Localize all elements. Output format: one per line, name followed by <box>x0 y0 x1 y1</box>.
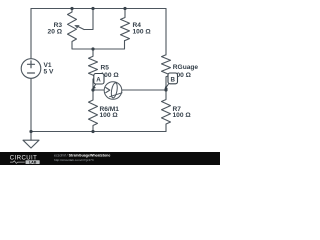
wire right rail upper <box>165 9 167 55</box>
meter M1 <box>104 82 122 100</box>
ground <box>23 140 39 148</box>
footer logo LAB box <box>26 160 40 164</box>
junction dot node A <box>91 88 94 91</box>
footer logo zigzag <box>10 161 25 164</box>
resistor R6 <box>89 90 98 132</box>
junction dot top rail / R4 <box>123 7 126 10</box>
wire meter left (node A to M1) <box>93 89 104 91</box>
svg-text:20 Ω: 20 Ω <box>48 29 63 36</box>
footer bar <box>0 152 220 165</box>
svg-text:LAB: LAB <box>29 160 37 164</box>
wire left rail upper (V1 top lead) <box>30 9 32 59</box>
wire meter right (M1 to node B) <box>122 89 166 91</box>
resistor RGuage <box>162 55 171 90</box>
node B flag <box>164 73 177 90</box>
resistor R7 <box>162 90 171 132</box>
resistor R5 <box>89 49 98 90</box>
junction dot bottom rail / R6 <box>91 130 94 133</box>
svg-text:5 V: 5 V <box>44 69 54 76</box>
svg-text:100 Ω: 100 Ω <box>100 112 119 119</box>
junction dot top rail / R3 <box>70 7 73 10</box>
svg-text:B: B <box>170 77 175 84</box>
junction dot bottom rail / ground <box>29 130 32 133</box>
junction dot node B <box>164 88 167 91</box>
resistor R3 <box>68 9 85 43</box>
junction dot mid wire / R5 <box>91 47 94 50</box>
svg-text:A: A <box>96 77 101 84</box>
svg-text:R5: R5 <box>101 65 110 72</box>
node A flag <box>93 74 104 90</box>
svg-text:RGuage: RGuage <box>173 64 199 71</box>
svg-text:100 Ω: 100 Ω <box>173 112 192 119</box>
junction dot top rail / wiper <box>91 7 94 10</box>
svg-text:http://circuitlab.com/c/7gr473: http://circuitlab.com/c/7gr473 <box>54 158 94 162</box>
voltage source V1 <box>21 59 41 79</box>
resistor R4 <box>121 9 130 41</box>
wire mid horizontal (R3/R4 bottom to bridge) <box>72 41 125 50</box>
svg-text:100 Ω: 100 Ω <box>133 28 152 35</box>
wire left rail lower (V1 bottom lead) <box>30 78 32 140</box>
svg-text:ecsdmf / StrainGuageWheatstone: ecsdmf / StrainGuageWheatstone <box>54 154 110 158</box>
wire bottom rail <box>31 131 166 133</box>
wire top rail <box>31 8 166 10</box>
wire R3 wiper to top rail <box>84 9 93 30</box>
